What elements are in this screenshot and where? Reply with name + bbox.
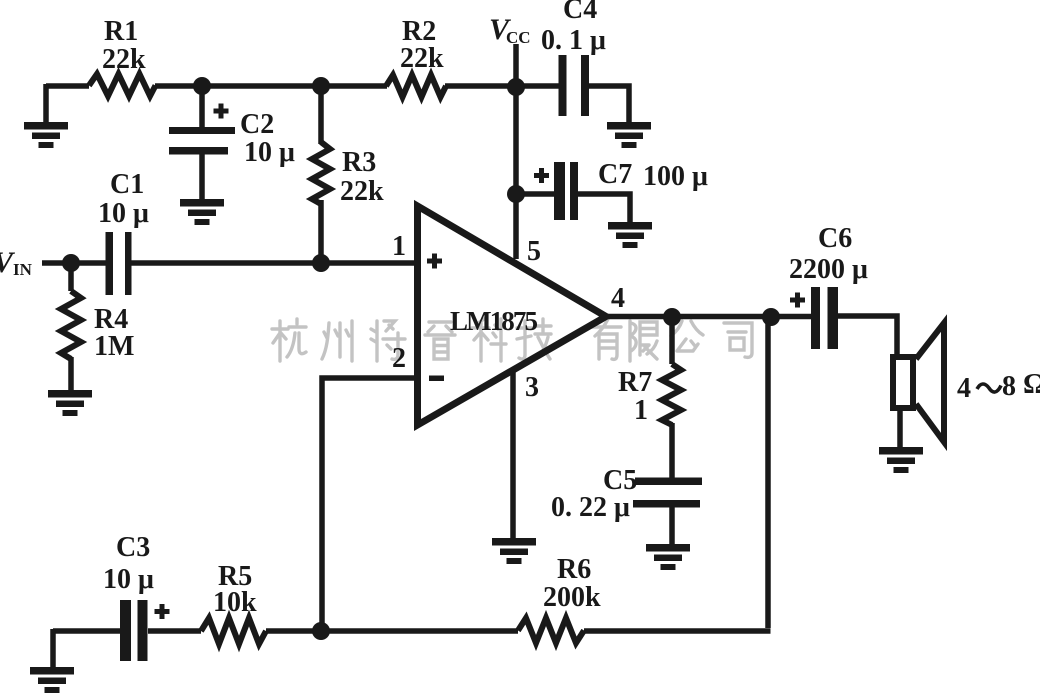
svg-text:R1: R1 xyxy=(104,16,138,47)
svg-text:3: 3 xyxy=(525,372,539,403)
svg-text:4: 4 xyxy=(957,373,971,404)
svg-text:10 μ: 10 μ xyxy=(103,564,154,595)
svg-text:22k: 22k xyxy=(102,44,146,75)
svg-text:0. 1 μ: 0. 1 μ xyxy=(541,25,606,56)
svg-text:2: 2 xyxy=(392,343,406,374)
svg-text:R6: R6 xyxy=(557,554,591,585)
svg-text:CC: CC xyxy=(506,28,531,47)
svg-text:IN: IN xyxy=(13,260,33,279)
svg-text:C7: C7 xyxy=(598,159,632,190)
svg-text:1M: 1M xyxy=(94,331,134,362)
svg-text:C2: C2 xyxy=(240,109,274,140)
svg-text:22k: 22k xyxy=(340,176,384,207)
svg-text:4: 4 xyxy=(611,283,625,314)
svg-text:8: 8 xyxy=(1002,371,1016,402)
svg-text:1: 1 xyxy=(392,231,406,262)
svg-text:C3: C3 xyxy=(116,532,150,563)
svg-text:C6: C6 xyxy=(818,223,852,254)
svg-text:10 μ: 10 μ xyxy=(244,137,295,168)
svg-text:0. 22 μ: 0. 22 μ xyxy=(551,492,630,523)
svg-text:22k: 22k xyxy=(400,43,444,74)
svg-text:100 μ: 100 μ xyxy=(643,161,708,192)
svg-text:10k: 10k xyxy=(213,587,257,618)
svg-text:200k: 200k xyxy=(543,582,601,613)
svg-text:R3: R3 xyxy=(342,147,376,178)
svg-text:LM1875: LM1875 xyxy=(450,306,538,336)
svg-text:Ω: Ω xyxy=(1023,368,1040,400)
svg-text:5: 5 xyxy=(527,236,541,267)
svg-text:C4: C4 xyxy=(563,0,597,25)
svg-text:2200 μ: 2200 μ xyxy=(789,254,868,285)
svg-text:C1: C1 xyxy=(110,169,144,200)
svg-text:10 μ: 10 μ xyxy=(98,198,149,229)
svg-text:R7: R7 xyxy=(618,367,652,398)
svg-text:1: 1 xyxy=(634,395,648,426)
